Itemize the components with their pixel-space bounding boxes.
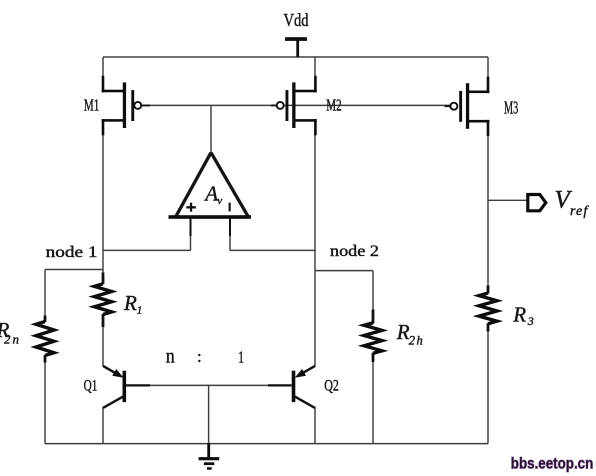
svg-text:R: R bbox=[512, 302, 526, 326]
svg-text:A: A bbox=[203, 182, 218, 206]
svg-text:node 1: node 1 bbox=[46, 244, 98, 261]
svg-text:2n: 2n bbox=[4, 332, 21, 347]
svg-text:M3: M3 bbox=[504, 98, 518, 118]
svg-text:2h: 2h bbox=[409, 334, 424, 348]
svg-text:1: 1 bbox=[238, 347, 244, 366]
svg-text:v: v bbox=[217, 195, 222, 207]
svg-text:Q1: Q1 bbox=[84, 377, 98, 394]
svg-text::: : bbox=[197, 347, 202, 366]
svg-text:R: R bbox=[396, 320, 410, 344]
svg-text:ref: ref bbox=[570, 204, 589, 219]
svg-text:M1: M1 bbox=[84, 96, 99, 115]
svg-text:1: 1 bbox=[137, 305, 143, 317]
svg-text:M2: M2 bbox=[326, 95, 341, 114]
svg-text:bbs.eetop.cn: bbs.eetop.cn bbox=[511, 455, 594, 472]
svg-text:3: 3 bbox=[527, 314, 534, 328]
svg-text:Q2: Q2 bbox=[324, 377, 339, 394]
svg-text:Vdd: Vdd bbox=[284, 10, 309, 30]
svg-text:R: R bbox=[123, 291, 137, 315]
svg-text:n: n bbox=[166, 345, 175, 367]
svg-text:node 2: node 2 bbox=[330, 243, 379, 260]
